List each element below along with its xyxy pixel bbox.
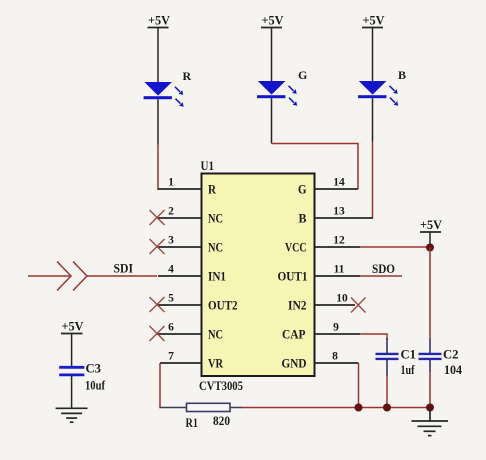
svg-text:1uf: 1uf xyxy=(401,362,416,377)
svg-text:CVT3005: CVT3005 xyxy=(199,378,243,393)
LED B xyxy=(358,68,406,142)
svg-text:CAP: CAP xyxy=(282,327,306,342)
svg-text:3: 3 xyxy=(168,235,174,247)
svg-text:C2: C2 xyxy=(443,347,459,362)
svg-text:14: 14 xyxy=(333,177,345,189)
wire net SDO from pin 11 xyxy=(360,261,402,276)
svg-text:C1: C1 xyxy=(401,347,417,362)
pin 14 G stub xyxy=(298,177,358,197)
svg-text:IN1: IN1 xyxy=(208,269,226,284)
pin 8 GND stub xyxy=(282,351,359,371)
pin 3 NC stub xyxy=(157,235,223,255)
svg-text:C3: C3 xyxy=(86,361,102,376)
capacitor C1 xyxy=(376,338,417,377)
power +5V P4 (right rail) xyxy=(420,217,443,247)
svg-text:104: 104 xyxy=(444,362,462,377)
svg-text:8: 8 xyxy=(332,351,338,363)
power +5V P3 (top right, LED B rail) xyxy=(362,13,385,82)
svg-text:13: 13 xyxy=(333,206,345,218)
svg-text:12: 12 xyxy=(333,235,345,247)
svg-text:9: 9 xyxy=(333,322,339,334)
svg-text:SDO: SDO xyxy=(372,261,395,276)
op IC U1 body xyxy=(199,158,315,393)
wire net LED B to pin 13 xyxy=(372,142,374,219)
svg-text:5: 5 xyxy=(168,293,174,305)
pin 13 B stub xyxy=(299,206,374,226)
power +5V P5 (C3 rail) xyxy=(61,319,84,368)
pin 10 IN2 stub xyxy=(288,293,355,313)
resistor R1 xyxy=(186,403,231,430)
svg-text:+5V: +5V xyxy=(262,13,285,28)
svg-text:VR: VR xyxy=(208,356,223,371)
junction dot bus/C2/ground xyxy=(426,404,434,412)
no-connect X pin 5 xyxy=(150,297,165,312)
wire net pin 7 VR down to R1 xyxy=(159,363,161,408)
svg-text:G: G xyxy=(298,182,307,197)
no-connect X pin 3 xyxy=(150,239,165,254)
no-connect X pin 10 xyxy=(351,298,366,313)
svg-text:B: B xyxy=(398,68,406,82)
junction dot bus/pin8 xyxy=(355,404,363,412)
svg-text:NC: NC xyxy=(208,327,223,342)
svg-text:R: R xyxy=(183,69,192,83)
wire net LED R to pin 1 xyxy=(157,145,159,189)
no-connect X pin 6 xyxy=(150,326,165,341)
capacitor C3 xyxy=(59,361,105,409)
svg-text:G: G xyxy=(298,68,307,82)
svg-text:R1: R1 xyxy=(186,415,199,430)
pin 6 NC stub xyxy=(157,322,223,342)
LED G xyxy=(257,68,307,144)
svg-text:+5V: +5V xyxy=(148,13,171,28)
pin 2 NC stub xyxy=(157,206,223,226)
wire net pin 8 GND down to bus xyxy=(358,363,360,408)
ground symbol right xyxy=(412,408,449,436)
svg-text:820: 820 xyxy=(213,413,230,428)
svg-text:U1: U1 xyxy=(201,158,215,173)
svg-text:10: 10 xyxy=(336,293,348,305)
svg-text:+5V: +5V xyxy=(363,13,386,28)
LED R xyxy=(144,69,192,145)
pin 4 IN1 stub xyxy=(158,264,226,284)
ground symbol left xyxy=(56,408,88,422)
pin 9 CAP stub xyxy=(282,322,360,342)
resistor R1 left lead xyxy=(159,407,186,409)
svg-text:1: 1 xyxy=(168,177,174,189)
capacitor C2 xyxy=(419,338,463,377)
pin 1 R stub xyxy=(157,177,216,197)
pin 11 OUT1 stub xyxy=(278,264,361,284)
svg-text:VCC: VCC xyxy=(285,240,307,255)
port SDI input chevrons xyxy=(28,261,157,291)
power +5V P2 (top middle, LED G rail) xyxy=(261,13,284,82)
junction dot at +5V rail / pin12 xyxy=(426,244,434,252)
power +5V P1 (top left, LED R rail) xyxy=(148,13,171,83)
svg-text:OUT2: OUT2 xyxy=(208,298,238,313)
svg-text:2: 2 xyxy=(168,206,174,218)
no-connect X pin 2 xyxy=(150,210,165,225)
svg-text:IN2: IN2 xyxy=(288,298,307,313)
svg-text:+5V: +5V xyxy=(420,217,443,232)
svg-text:10uf: 10uf xyxy=(85,378,106,393)
svg-text:11: 11 xyxy=(334,264,345,276)
svg-text:OUT1: OUT1 xyxy=(278,269,308,284)
wire net VCC pin12 to +5V rail xyxy=(360,246,430,248)
svg-text:NC: NC xyxy=(208,211,223,226)
svg-text:R: R xyxy=(208,182,217,197)
svg-text:4: 4 xyxy=(168,264,174,276)
wire +5V rail down to C2 xyxy=(429,248,431,339)
pin 5 OUT2 stub xyxy=(157,293,238,313)
svg-text:6: 6 xyxy=(168,322,174,334)
svg-text:SDI: SDI xyxy=(114,261,134,276)
pin 7 VR stub xyxy=(160,351,223,371)
wire ground bus R1 to GND xyxy=(230,407,243,409)
wire net LED G to pin 14 xyxy=(272,144,359,190)
svg-text:NC: NC xyxy=(208,240,223,255)
wire C2 down to ground bus xyxy=(429,372,431,408)
wire net pin 9 CAP to C1 xyxy=(360,334,387,340)
junction dot bus/C1 xyxy=(383,404,391,412)
svg-text:+5V: +5V xyxy=(62,319,85,334)
svg-text:B: B xyxy=(299,211,307,226)
pin 12 VCC stub xyxy=(285,235,360,255)
wire C1 down to ground bus xyxy=(386,376,388,408)
svg-text:7: 7 xyxy=(168,351,174,363)
svg-text:GND: GND xyxy=(282,356,307,371)
